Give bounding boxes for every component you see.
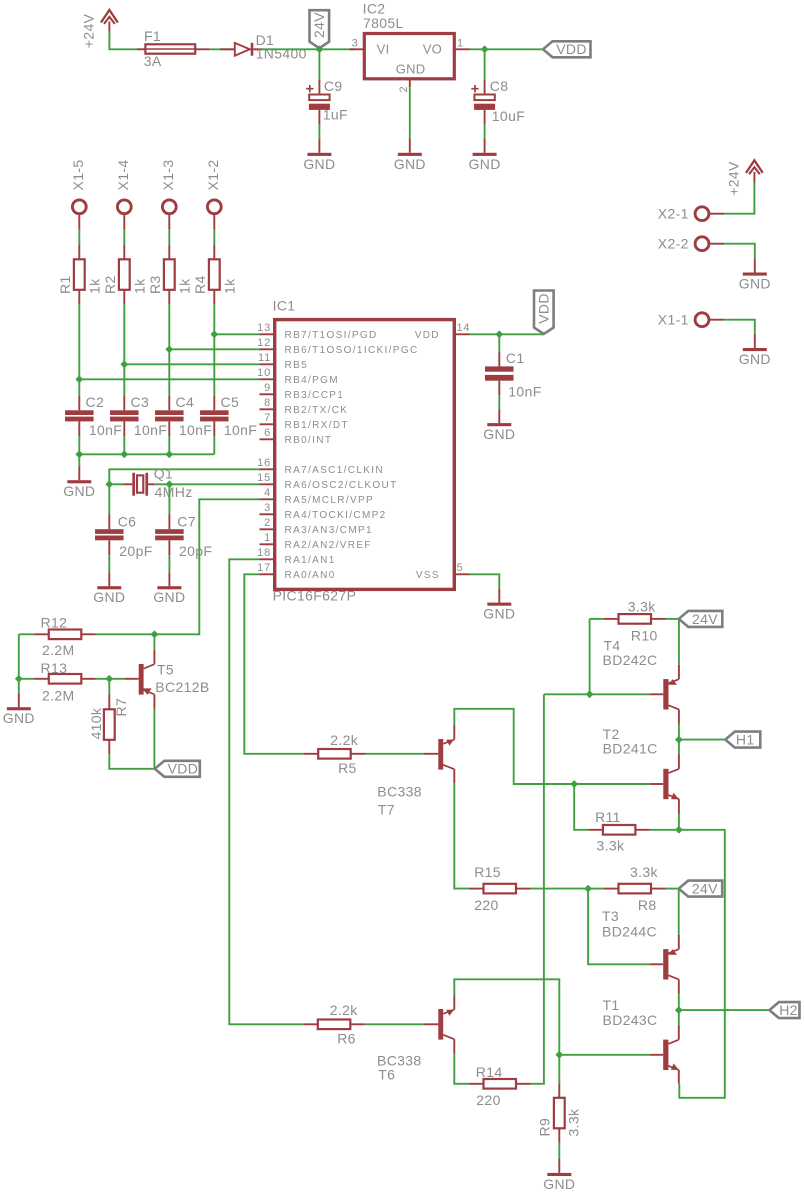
net flag H1 [725,732,760,748]
svg-text:10nF: 10nF [89,422,122,438]
IC1 pin 11 stub [260,363,275,365]
wire X2-2 to ground [724,244,755,259]
wire R7 to VDD flag [109,754,155,769]
junction crystal left [105,480,113,488]
IC1 pin 6 stub [260,438,275,440]
svg-text:20pF: 20pF [179,543,212,559]
svg-text:24V: 24V [311,12,327,38]
wire T5 collector to node [153,634,155,650]
wire C1 to ground [498,395,500,409]
svg-text:T7: T7 [378,802,395,818]
wire 24V to T4 emitter [678,619,680,665]
svg-text:24V: 24V [692,881,718,897]
svg-text:2.2k: 2.2k [330,1002,359,1018]
junction C8 node [481,45,489,53]
svg-text:X2-1: X2-1 [658,206,689,222]
wire T6 collector to T1 base node [454,979,559,1055]
svg-text:410k: 410k [88,707,104,739]
net flag VDD top [543,41,591,57]
ground under X2-2 [754,259,756,273]
svg-text:10uF: 10uF [492,108,525,124]
wire R2 to bus and pin row [123,304,125,395]
connector X1-5 [72,200,86,214]
transistor T3 BD244C [650,963,664,965]
svg-text:F1: F1 [144,28,161,44]
wire R12 left down to R13 [18,634,20,679]
svg-text:RA0/AN0: RA0/AN0 [285,570,336,581]
svg-text:4: 4 [264,487,271,499]
wire crystal right to pin15 [155,483,260,485]
svg-text:C5: C5 [221,394,240,410]
wire D1 to 24V node [262,48,354,50]
svg-text:PIC16F627P: PIC16F627P [273,588,357,604]
svg-text:10: 10 [257,367,271,379]
svg-text:GND: GND [543,1176,575,1192]
resistor R8 [588,888,604,890]
transistor T5 BC212B [124,678,138,680]
ground under X1-1 [754,334,756,348]
IC1 pin 16 stub [260,468,275,470]
wire IC1 pin18 down to R6 [229,559,303,1024]
net flag H2 [769,1002,799,1018]
svg-text:X1-4: X1-4 [115,160,131,191]
svg-text:RA1/AN1: RA1/AN1 [285,555,336,566]
wire T4 base [590,693,650,695]
wire node to IC1 pin [79,378,259,380]
junction T2 base node [570,780,578,788]
IC2 pin 2 stub [409,79,411,88]
wire T4 base node to R14 riser [544,693,590,695]
connector X1-1 [695,313,709,327]
svg-text:Q1: Q1 [154,466,173,482]
svg-text:VI: VI [377,42,390,57]
svg-text:1k: 1k [131,278,147,294]
capacitor C1 [498,334,500,352]
svg-text:16: 16 [257,457,271,469]
svg-text:VO: VO [423,42,442,57]
svg-text:RB2/TX/CK: RB2/TX/CK [285,405,349,416]
svg-text:R13: R13 [41,660,68,676]
supply +24V arrow top-left [101,10,118,23]
wire T6 emitter down to R14 [454,1054,469,1084]
svg-text:R2: R2 [102,275,118,294]
svg-text:X1-2: X1-2 [205,160,221,191]
wire IC1 pin16 to crystal [109,469,259,484]
resistor R12 [19,633,35,635]
wire IC2 pin1 to VDD [470,48,543,50]
svg-text:+24V: +24V [725,161,741,196]
wire IC1 pin5 to ground [470,574,500,588]
svg-text:1: 1 [264,532,271,544]
connector X1-2 [207,200,221,214]
IC1 pin 9 stub [260,393,275,395]
wire T3 collector to H2 node [678,994,680,1010]
svg-text:14: 14 [457,322,471,334]
ground under C9 [318,139,320,153]
svg-text:BC212B: BC212B [155,679,209,695]
IC1 pin 15 stub [260,483,275,485]
junction 24V node [316,45,324,53]
svg-text:10nF: 10nF [179,422,212,438]
IC1 pin 10 stub [260,378,275,380]
capacitor C7 [168,484,170,514]
svg-text:H2: H2 [779,1002,798,1018]
wire 24V to T3 emitter [678,889,680,935]
svg-text:C7: C7 [177,514,196,530]
svg-text:C2: C2 [86,394,105,410]
svg-text:R15: R15 [474,864,501,880]
svg-text:GND: GND [63,483,95,499]
resistor R15 [469,888,484,890]
svg-text:X1-5: X1-5 [70,160,86,191]
wire C4 to gnd bus [168,436,170,454]
svg-text:RB7/T1OSI/PGD: RB7/T1OSI/PGD [285,330,378,341]
wire X1-5 to R1 [78,229,80,245]
svg-text:BD241C: BD241C [603,741,658,757]
wire base node to T5 [109,678,124,680]
junction H1 node [675,736,683,744]
transistor T6 BC338 [424,1023,438,1025]
voltage regulator IC2 box [364,34,454,79]
junction bus at C4 [165,450,173,458]
wire X1-4 to R2 [123,229,125,245]
junction R11 right node [675,826,683,834]
wire R10 left down to T4 base node [589,619,591,694]
transistor T1 BD243C [650,1054,664,1056]
svg-text:3.3k: 3.3k [628,599,657,615]
svg-text:GND: GND [483,606,515,622]
svg-text:10nF: 10nF [508,384,541,400]
svg-text:C9: C9 [324,78,343,94]
wire R9 to ground [558,1143,560,1159]
svg-text:VDD: VDD [168,761,199,777]
wire T1 collector to H2 node [678,1010,680,1025]
connector X2-2 [695,237,709,251]
connector X2-1 [695,207,709,221]
svg-text:RB6/T1OSO/1ICKI/PGC: RB6/T1OSO/1ICKI/PGC [285,345,419,356]
svg-text:1k: 1k [86,278,102,294]
svg-text:RB3/CCP1: RB3/CCP1 [285,390,345,401]
svg-text:GND: GND [153,589,185,605]
capacitor C6 [108,484,110,514]
svg-text:12: 12 [257,337,271,349]
wire IC1 pin14 to VDD flag [470,333,544,335]
IC1 pin 14 stub [454,333,469,335]
resistor R6 [303,1023,318,1025]
wire T2 collector to H1 node [678,740,680,755]
capacitor C9 [318,80,320,95]
svg-text:5: 5 [457,562,464,574]
svg-text:9: 9 [264,382,271,394]
junction node at R2 [120,360,128,368]
svg-text:X1-3: X1-3 [160,160,176,191]
ground under VSS [498,589,500,603]
wire T1 base [559,1054,649,1056]
IC1 pin 3 stub [260,513,275,515]
wire F1 to D1 [210,48,235,50]
svg-text:C6: C6 [118,514,137,530]
svg-text:20pF: 20pF [119,543,152,559]
svg-text:BD242C: BD242C [603,652,658,668]
svg-text:3: 3 [264,502,271,514]
svg-text:GND: GND [3,710,35,726]
net flag 24V lower [679,881,723,897]
diode D1 [235,43,250,56]
svg-text:RA6/OSC2/CLKOUT: RA6/OSC2/CLKOUT [285,480,398,491]
svg-text:GND: GND [394,156,426,172]
wire R3 to bus and pin row [168,304,170,395]
net flag VDD left [155,761,200,777]
svg-text:R5: R5 [338,760,357,776]
wire C8 node down to C8 [484,49,486,80]
svg-text:VDD: VDD [556,41,587,57]
ground under C6 [108,572,110,586]
svg-text:GND: GND [469,156,501,172]
wire R5 to T7 base [365,753,424,755]
resistor R2 [123,245,125,260]
IC1 pin 12 stub [260,348,275,350]
IC1 pin 17 stub [260,573,275,575]
wire C6 to ground [108,555,110,572]
wire R14 right up to T4 base node [531,694,544,1084]
wire T4 collector to H1 node [678,724,680,740]
IC1 pin 5 stub [454,573,469,575]
svg-text:RA7/ASC1/CLKIN: RA7/ASC1/CLKIN [285,465,385,476]
svg-text:7: 7 [264,412,271,424]
svg-text:R6: R6 [337,1031,356,1047]
wire C5 to gnd bus [213,436,215,454]
svg-text:1: 1 [457,37,464,49]
wire T7 emitter down to R15 [454,784,469,889]
IC1 pin 18 stub [260,558,275,560]
svg-text:1N5400: 1N5400 [256,46,307,62]
IC1 pin 1 stub [260,543,275,545]
junction C1 node [495,330,503,338]
resistor R3 [168,245,170,260]
svg-text:+24V: +24V [81,13,97,48]
IC1 pin 8 stub [260,408,275,410]
svg-text:GND: GND [739,276,771,292]
svg-text:3.3k: 3.3k [597,838,626,854]
svg-text:1k: 1k [176,278,192,294]
svg-text:GND: GND [303,156,335,172]
transistor T2 BD241C [650,783,664,785]
svg-text:T6: T6 [378,1067,395,1083]
wire C8 to ground [484,124,486,138]
svg-text:1k: 1k [221,278,237,294]
resistor R7 [108,679,110,695]
connector X1-4 [117,200,131,214]
supply flag 24V vertical [310,10,330,48]
wire H2 node to flag [679,1009,770,1011]
svg-text:24V: 24V [692,611,718,627]
resistor R5 [304,753,318,755]
junction H2 node [675,1006,683,1014]
resistor R9 [558,1055,560,1083]
wire X1-2 to R4 [213,229,215,245]
connector X1-3 [162,200,176,214]
wire X1-3 to R3 [168,229,170,245]
svg-text:T3: T3 [602,908,619,924]
svg-text:RB0/INT: RB0/INT [285,435,333,446]
svg-text:10nF: 10nF [134,422,167,438]
IC2 pin 1 stub [454,48,469,50]
svg-text:4MHz: 4MHz [155,484,193,500]
svg-text:BD243C: BD243C [603,1012,658,1028]
junction T1 base node [555,1051,563,1059]
svg-text:R14: R14 [476,1064,503,1080]
svg-text:R12: R12 [41,615,68,631]
ground under R13 [18,693,20,707]
wire T7 collector to T2 base [454,709,649,784]
svg-text:RB4/PGM: RB4/PGM [285,375,339,386]
svg-text:X1-1: X1-1 [658,312,689,328]
svg-text:GND: GND [93,589,125,605]
wire R1 to bus and pin row [78,304,80,395]
wire IC2 pin2 to ground [409,87,411,139]
svg-text:2: 2 [264,517,271,529]
svg-text:3.3k: 3.3k [566,1108,582,1137]
junction T4 base node [586,690,594,698]
IC1 pin 7 stub [260,423,275,425]
svg-text:1uF: 1uF [323,107,348,123]
wire C3 to gnd bus [123,436,125,454]
wire IC1 pin4 down to R12 node [154,499,259,634]
svg-text:R10: R10 [631,628,658,644]
wire R11 node to T1 emitter bypass [679,830,725,1098]
svg-text:RB1/RX/DT: RB1/RX/DT [285,420,349,431]
wire bus to ground [78,454,80,466]
supply +24V arrow right [746,160,763,173]
junction T5 collector node [151,630,159,638]
svg-text:VDD: VDD [415,330,440,341]
svg-text:15: 15 [257,472,271,484]
wire X2-1 to +24V [724,182,754,213]
ground under C7 [168,572,170,586]
svg-text:11: 11 [258,352,271,364]
capacitor C3 [123,396,125,411]
wire node to IC1 pin [214,333,259,335]
ground under R9 [558,1159,560,1173]
ground under C1 [498,409,500,423]
junction bus at C2 [75,450,83,458]
junction R13 left node [15,675,23,683]
net flag 24V top [679,611,723,627]
svg-text:C8: C8 [490,78,509,94]
net flag VDD vertical at pin14 [534,291,554,335]
resistor R4 [213,245,215,260]
svg-text:3.3k: 3.3k [630,864,659,880]
svg-text:T1: T1 [603,997,620,1013]
wire H1 node to flag [679,739,725,741]
svg-text:2.2M: 2.2M [42,642,75,658]
ground under C8 [484,139,486,153]
svg-text:2.2M: 2.2M [42,687,75,703]
wire C2 to gnd bus [78,436,80,454]
IC1 pin 4 stub [260,498,275,500]
svg-text:10nF: 10nF [224,422,257,438]
svg-text:2.2k: 2.2k [330,732,359,748]
wire node down to T3 base [588,889,650,965]
svg-text:R1: R1 [57,275,73,294]
wire T5 emitter to VDD [153,709,155,769]
wire R4 to bus and pin row [213,304,215,395]
svg-text:7805L: 7805L [363,15,404,31]
svg-text:R7: R7 [113,698,129,717]
svg-text:RA3/AN3/CMP1: RA3/AN3/CMP1 [285,525,373,536]
svg-text:RB5: RB5 [285,360,309,371]
svg-text:3A: 3A [144,53,162,69]
resistor R13 [19,678,35,680]
svg-text:IC1: IC1 [273,298,296,314]
svg-text:C4: C4 [176,394,195,410]
junction node at R1 [75,375,83,383]
svg-text:RA2/AN2/VREF: RA2/AN2/VREF [285,540,372,551]
svg-text:GND: GND [483,426,515,442]
svg-text:R9: R9 [537,1118,553,1137]
svg-text:VSS: VSS [416,570,440,581]
svg-text:T5: T5 [157,662,174,678]
svg-text:R11: R11 [595,809,621,825]
junction R8 left node [584,885,592,893]
capacitor C5 [213,396,215,411]
svg-text:17: 17 [257,562,271,574]
transistor T4 BD242C [650,693,664,695]
wire ground bus [79,453,214,455]
junction T5 base node [105,675,113,683]
svg-text:BC338: BC338 [377,784,422,800]
wire 24V node down to C9 [318,49,320,80]
svg-text:3: 3 [352,37,359,49]
IC1 pin 2 stub [260,528,275,530]
microcontroller IC1 box [275,320,455,590]
resistor R10 [590,618,604,620]
svg-text:13: 13 [257,322,271,334]
capacitor C2 [78,396,80,411]
junction crystal right [166,480,174,488]
svg-text:220: 220 [476,1092,500,1108]
svg-text:GND: GND [396,62,426,77]
svg-text:8: 8 [264,397,271,409]
IC2 pin 3 stub [350,48,365,50]
junction node at R4 [210,330,218,338]
crystal Q1 [124,483,133,485]
svg-text:VDD: VDD [536,293,552,324]
wire crystal left [109,483,123,485]
wire C9 to ground [318,124,320,138]
transistor T7 BC338 [424,753,438,755]
svg-text:H1: H1 [736,732,755,748]
svg-text:6: 6 [264,427,271,439]
svg-text:220: 220 [474,897,498,913]
wire X1-1 to ground [724,320,755,334]
wire IC1 pin17 down to R5 [244,574,304,754]
junction bus at C3 [120,450,128,458]
capacitor C4 [168,396,170,411]
svg-text:RA4/TOCKI/CMP2: RA4/TOCKI/CMP2 [285,510,387,521]
ground under C2 bus [78,466,80,480]
fuse F1 [145,44,195,53]
svg-text:X2-2: X2-2 [658,236,689,252]
svg-text:18: 18 [257,547,271,559]
wire +24V to fuse F1 [109,31,137,49]
wire node to IC1 pin [169,348,259,350]
capacitor C8 [484,80,486,95]
svg-text:BD244C: BD244C [602,924,657,940]
resistor R14 [469,1083,484,1085]
IC1 pin 13 stub [260,333,275,335]
resistor R1 [78,245,80,260]
